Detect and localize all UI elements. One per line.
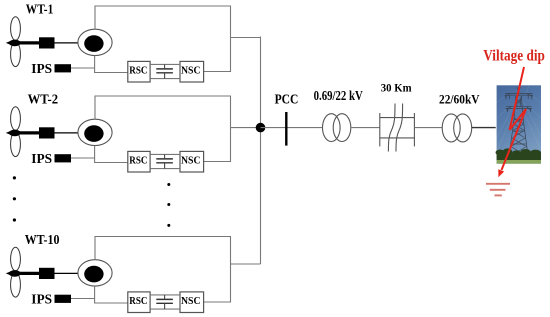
capacitor DC link WT-10 bbox=[156, 298, 173, 300]
transformer T2 22/60kV bbox=[442, 114, 460, 142]
generator WT-10 outer bbox=[78, 260, 112, 286]
node PCC junction dot bbox=[256, 123, 266, 133]
wire IPS WT-2 bbox=[71, 157, 95, 159]
wire stator loop WT-1 bbox=[95, 6, 231, 72]
turbine WT-1 hub bbox=[9, 40, 21, 47]
svg-text:PCC: PCC bbox=[275, 93, 299, 108]
turbine WT-1 shaft bbox=[6, 40, 12, 45]
IPS block WT-2 bbox=[55, 154, 72, 162]
wire stator loop WT-2 bbox=[95, 96, 231, 162]
wire T1 to line bbox=[351, 127, 380, 129]
PCC busbar bbox=[285, 112, 287, 146]
svg-text:30 Km: 30 Km bbox=[381, 83, 412, 95]
gearbox WT-1 bbox=[39, 37, 55, 48]
svg-text:0.69/22 kV: 0.69/22 kV bbox=[314, 88, 363, 103]
svg-text:Viltage dip: Viltage dip bbox=[483, 48, 545, 65]
turbine WT-10 blade lower bbox=[11, 272, 21, 297]
wire shaft to generator WT-1 bbox=[55, 42, 79, 44]
IPS block WT-1 bbox=[55, 64, 72, 72]
wire stator loop WT-10 bbox=[95, 237, 231, 303]
IPS block WT-10 bbox=[55, 295, 72, 303]
svg-text:NSC: NSC bbox=[181, 65, 201, 77]
svg-text:RSC: RSC bbox=[129, 155, 147, 167]
turbine WT-1 blade lower bbox=[11, 42, 21, 67]
wire DC link rails WT-10 bbox=[150, 294, 180, 296]
turbine WT-2 blade lower bbox=[11, 132, 21, 157]
svg-text:NSC: NSC bbox=[181, 295, 201, 307]
ellipsis dots middle column bbox=[167, 183, 170, 186]
ellipsis dots left column bbox=[13, 176, 16, 179]
turbine WT-2 blade upper bbox=[11, 107, 21, 131]
svg-text:WT-2: WT-2 bbox=[28, 92, 58, 107]
converter NSC WT-2 bbox=[180, 151, 204, 172]
transformer T1 0.69/22 kV bbox=[323, 114, 341, 142]
svg-text:WT-10: WT-10 bbox=[25, 233, 60, 248]
turbine WT-2 shaft bbox=[6, 130, 12, 135]
transmission line 30 Km symbol bbox=[380, 104, 415, 152]
generator WT-10 rotor (inner) bbox=[84, 266, 103, 283]
generator WT-1 outer bbox=[78, 29, 112, 55]
wire IPS WT-1 bbox=[71, 67, 95, 69]
wire rotor WT-1 to RSC bbox=[95, 56, 128, 73]
converter RSC WT-2 bbox=[128, 151, 150, 172]
turbine WT-1 blade upper bbox=[11, 17, 21, 41]
turbine WT-2 hub bbox=[9, 130, 21, 137]
wire tap WT-1 to bus bbox=[231, 37, 261, 39]
wire rotor WT-10 to RSC bbox=[95, 286, 128, 303]
wire bus to transformer T1 bbox=[261, 127, 323, 129]
svg-text:IPS: IPS bbox=[31, 152, 52, 167]
wire T2 to grid bbox=[472, 127, 496, 129]
svg-text:WT-1: WT-1 bbox=[26, 2, 54, 17]
converter RSC WT-1 bbox=[128, 61, 150, 82]
svg-text:22/60kV: 22/60kV bbox=[439, 93, 480, 107]
wire shaft to generator WT-2 bbox=[55, 132, 79, 134]
wire line to transformer T2 bbox=[414, 127, 442, 129]
wire tap WT-2 to bus bbox=[231, 127, 261, 129]
turbine WT-10 blade upper bbox=[11, 247, 21, 271]
wire IPS WT-10 bbox=[71, 298, 95, 300]
svg-text:IPS: IPS bbox=[31, 293, 52, 308]
gearbox WT-2 bbox=[39, 127, 55, 138]
generator WT-2 outer bbox=[78, 119, 112, 145]
generator WT-1 rotor (inner) bbox=[84, 35, 103, 52]
voltage dip lightning arrow bbox=[502, 67, 527, 170]
capacitor DC link WT-2 bbox=[156, 158, 173, 160]
svg-text:NSC: NSC bbox=[181, 155, 201, 167]
capacitor DC link WT-1 bbox=[156, 68, 173, 70]
turbine WT-10 shaft bbox=[6, 271, 12, 276]
wire shaft to generator WT-10 bbox=[55, 272, 79, 274]
svg-text:RSC: RSC bbox=[129, 295, 147, 307]
converter NSC WT-1 bbox=[180, 61, 204, 82]
generator WT-2 rotor (inner) bbox=[84, 125, 103, 142]
wire rotor WT-2 to RSC bbox=[95, 146, 128, 163]
turbine WT-10 hub bbox=[9, 270, 21, 277]
wire tap WT-10 to bus bbox=[231, 263, 261, 265]
gearbox WT-10 bbox=[39, 268, 55, 279]
wire DC link rails WT-2 bbox=[150, 153, 180, 155]
wire collector bus vertical bbox=[260, 37, 262, 265]
converter RSC WT-10 bbox=[128, 292, 150, 313]
ground symbol (red) bbox=[486, 184, 510, 196]
svg-text:IPS: IPS bbox=[31, 62, 52, 77]
converter NSC WT-10 bbox=[180, 292, 204, 313]
svg-text:RSC: RSC bbox=[129, 65, 147, 77]
wire DC link rails WT-1 bbox=[150, 63, 180, 65]
